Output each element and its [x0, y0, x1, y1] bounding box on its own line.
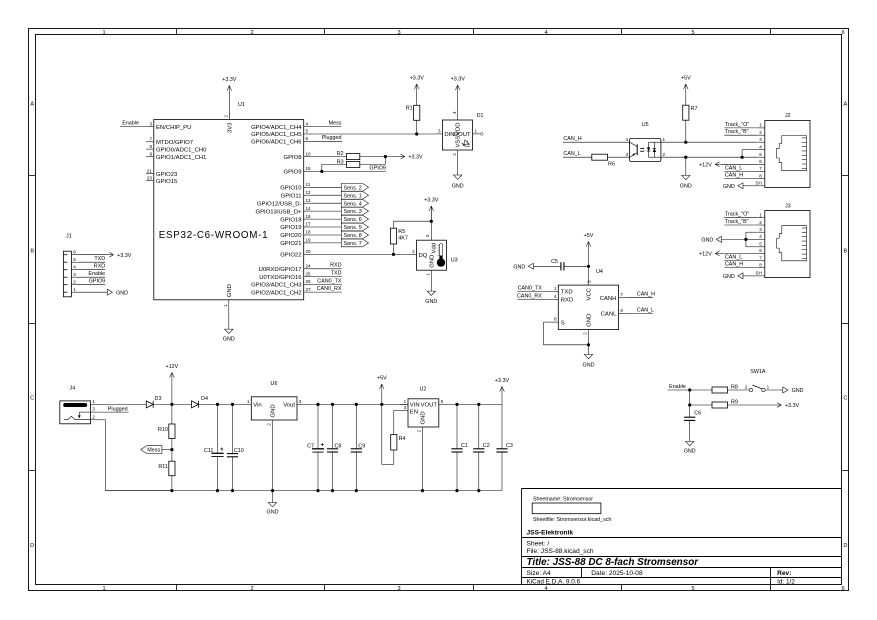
svg-text:Enable: Enable [669, 384, 686, 390]
svg-text:3: 3 [587, 280, 592, 283]
svg-text:D4: D4 [201, 396, 208, 402]
svg-text:CAN0_TX: CAN0_TX [518, 285, 543, 291]
svg-text:+3.3V: +3.3V [451, 77, 466, 83]
power +3.3V above R1 [410, 76, 425, 106]
svg-text:CAN_L: CAN_L [725, 254, 742, 260]
svg-text:GPIO2/ADC1_CH2: GPIO2/ADC1_CH2 [251, 290, 301, 296]
svg-text:A: A [30, 102, 34, 108]
wire R4 to +5V rail [382, 404, 394, 464]
svg-text:4: 4 [759, 145, 762, 150]
wire CAN0_RX net [312, 286, 342, 292]
svg-text:+3.3V: +3.3V [785, 403, 800, 409]
svg-text:11: 11 [306, 182, 311, 187]
svg-text:U3: U3 [451, 258, 458, 264]
svg-text:Size: A4: Size: A4 [527, 570, 552, 577]
svg-text:Track_"B": Track_"B" [725, 219, 749, 225]
junction C10 bottom [231, 489, 234, 492]
resistor R3 [337, 159, 360, 167]
svg-text:2: 2 [759, 130, 762, 135]
svg-text:GPIO11: GPIO11 [281, 193, 302, 199]
svg-text:GND: GND [452, 184, 464, 190]
ground at J2 SH [723, 183, 757, 190]
power +12V above divider [166, 364, 179, 404]
junction U6 GND rail [271, 489, 274, 492]
connector J3 [755, 203, 810, 277]
svg-text:8: 8 [759, 173, 762, 178]
svg-text:1: 1 [247, 399, 250, 404]
svg-text:2: 2 [759, 220, 762, 225]
svg-text:R11: R11 [158, 464, 168, 470]
svg-text:R10: R10 [158, 427, 168, 433]
svg-text:B: B [844, 249, 848, 255]
svg-text:3: 3 [404, 405, 407, 410]
wire J1 pin1 [79, 291, 107, 293]
svg-text:5: 5 [441, 399, 444, 404]
wire J3 pin7 CAN_L [724, 254, 757, 260]
svg-text:2: 2 [250, 586, 253, 592]
wire Plugged label [312, 135, 343, 141]
svg-text:19: 19 [306, 238, 312, 243]
svg-text:1: 1 [73, 287, 76, 292]
wire Plugged at J4 [98, 406, 129, 412]
svg-text:2: 2 [583, 332, 588, 335]
hierarchical label Sens. 4 [341, 199, 368, 207]
wire J1 pin6 [79, 254, 107, 256]
junction +12V node [170, 403, 173, 406]
hierarchical label Sens. 5 [341, 223, 368, 231]
svg-text:6: 6 [759, 159, 762, 164]
junction U2 GND rail [421, 489, 424, 492]
wire CAN_H to U5 [563, 136, 630, 142]
svg-text:DQ: DQ [419, 253, 428, 259]
svg-text:GPIO5/ADC1_CH5: GPIO5/ADC1_CH5 [251, 132, 302, 138]
svg-text:Plugged: Plugged [322, 135, 342, 141]
svg-text:U0RXD/GPIO17: U0RXD/GPIO17 [259, 267, 302, 273]
wire to Sens. 4 [312, 202, 342, 204]
svg-text:GPIO0/ADC1_CH0: GPIO0/ADC1_CH0 [156, 147, 207, 153]
svg-text:GND: GND [792, 388, 804, 394]
svg-text:1: 1 [759, 213, 762, 218]
svg-text:3: 3 [397, 586, 400, 592]
svg-text:GND: GND [227, 284, 233, 297]
bottom ground rail [105, 490, 502, 492]
wire J1 pin3 Enable [79, 271, 105, 277]
svg-text:1: 1 [474, 128, 477, 133]
capacitor C9 [351, 404, 366, 490]
junction +5V rail [380, 403, 383, 406]
svg-text:GPIO10: GPIO10 [280, 186, 302, 192]
svg-text:C10: C10 [234, 448, 244, 454]
svg-text:2: 2 [452, 153, 457, 156]
wire TXD net [312, 271, 342, 277]
junction C11 top [216, 403, 219, 406]
power +5V at rail [377, 376, 387, 405]
svg-text:2: 2 [92, 414, 95, 419]
junction J2 pin4/pin5 [741, 156, 744, 159]
svg-text:17: 17 [306, 222, 312, 227]
resistor R4 [391, 435, 406, 451]
junction U4 GND [587, 343, 590, 346]
wire U6 Vout rail [305, 403, 408, 405]
svg-text:3: 3 [92, 407, 95, 412]
wire VCC stem U4 [588, 266, 590, 285]
hierarchical label Sens. 2 [341, 183, 368, 191]
capacitor C11 [204, 404, 224, 490]
svg-text:+3.3V: +3.3V [222, 77, 237, 83]
svg-text:R2: R2 [337, 151, 344, 157]
svg-text:JSS-Elektronik: JSS-Elektronik [527, 530, 574, 537]
wire SW1A to GND [765, 389, 783, 391]
wire CAN_L to R6 [563, 151, 592, 157]
resistor R7 [683, 105, 698, 142]
svg-text:EN/CHIP_PU: EN/CHIP_PU [156, 125, 191, 131]
svg-text:CAN0_TX: CAN0_TX [317, 278, 342, 284]
svg-text:7: 7 [759, 255, 762, 260]
power +3.3V above U1 [222, 77, 237, 120]
resistor R11 [158, 450, 175, 491]
svg-text:GND: GND [223, 337, 235, 343]
svg-text:GPIO9: GPIO9 [89, 279, 105, 285]
svg-text:RXD: RXD [94, 264, 105, 270]
svg-text:+3.3V: +3.3V [117, 253, 132, 259]
svg-text:GND: GND [680, 183, 692, 189]
svg-text:CAN_H: CAN_H [725, 262, 743, 268]
svg-text:GPIO18: GPIO18 [280, 217, 302, 223]
svg-text:Mess: Mess [329, 121, 342, 127]
svg-text:15: 15 [306, 166, 312, 171]
svg-text:2: 2 [267, 423, 272, 426]
svg-text:1: 1 [426, 273, 431, 276]
junction C1 bottom [455, 489, 458, 492]
svg-text:4K7: 4K7 [398, 236, 408, 242]
svg-text:3: 3 [299, 399, 302, 404]
svg-text:R9: R9 [731, 399, 738, 405]
capacitor C6 [684, 405, 701, 441]
svg-text:20: 20 [306, 249, 312, 254]
ground at J3 SH [723, 273, 757, 280]
svg-text:Sheetname: Stromsensor: Sheetname: Stromsensor [533, 497, 593, 503]
svg-text:D3: D3 [155, 396, 162, 402]
resistor R10 [158, 404, 175, 449]
svg-text:S: S [561, 320, 565, 326]
hierarchical label Sens. 7 [341, 239, 368, 247]
hierarchical label Mess [141, 446, 172, 454]
svg-text:GPIO13/USB_D+: GPIO13/USB_D+ [255, 209, 302, 215]
wire to Sens. 7 [312, 242, 342, 244]
svg-text:C8: C8 [335, 443, 342, 449]
hierarchical sheet Stromsensor [532, 497, 611, 523]
svg-text:EN: EN [410, 410, 418, 416]
svg-text:C6: C6 [694, 411, 701, 417]
junction +3.3V/R5/U3 [430, 220, 433, 223]
wire J2 pin7 CAN_L [724, 165, 757, 171]
power +3.3V right of R2 [399, 154, 423, 161]
svg-text:12: 12 [306, 190, 312, 195]
svg-text:2: 2 [663, 152, 666, 157]
ground left of C5 [513, 263, 533, 270]
svg-text:VDD: VDD [456, 123, 462, 135]
title block [522, 489, 842, 586]
ground below U6 [267, 503, 279, 516]
svg-text:C2: C2 [483, 443, 490, 449]
wire RXD net [312, 263, 342, 269]
svg-text:CAN_H: CAN_H [563, 136, 581, 142]
svg-text:4: 4 [544, 586, 547, 592]
wire J4 pin1 to D3 [98, 403, 146, 405]
svg-text:2: 2 [224, 115, 229, 118]
svg-text:5: 5 [306, 129, 309, 134]
capacitor C8 [327, 404, 342, 490]
svg-text:GPIO22: GPIO22 [280, 253, 301, 259]
svg-text:2: 2 [745, 384, 748, 389]
svg-text:8: 8 [149, 144, 152, 149]
regulator U6 [244, 381, 305, 428]
wire R6 to U5 [608, 156, 630, 158]
svg-text:Title: JSS-88 DC 8-fach Stroms: Title: JSS-88 DC 8-fach Stromsensor [527, 557, 700, 568]
svg-text:Sens. 5: Sens. 5 [344, 225, 362, 231]
wire J2 pin1 Track_O [724, 122, 757, 128]
svg-text:C9: C9 [358, 443, 365, 449]
junction C11 bottom [216, 489, 219, 492]
svg-text:Plugged: Plugged [108, 406, 128, 412]
capacitor C7 [307, 404, 324, 490]
power +3.3V right of R9 [775, 403, 799, 410]
svg-text:+12V: +12V [699, 252, 712, 258]
svg-text:GND: GND [701, 238, 713, 244]
diode D4 [192, 396, 208, 408]
svg-text:Vout: Vout [283, 403, 295, 409]
wire J4 pin2 down [98, 420, 172, 491]
svg-text:TXD: TXD [94, 256, 105, 262]
capacitor C3 [496, 404, 513, 490]
switch SW1A [745, 369, 770, 391]
J4 pin stubs [91, 399, 98, 420]
svg-text:21: 21 [147, 168, 153, 173]
svg-text:3: 3 [397, 30, 400, 36]
svg-text:GPIO20: GPIO20 [280, 233, 302, 239]
svg-text:R4: R4 [399, 436, 406, 442]
svg-text:8: 8 [759, 262, 762, 267]
svg-text:CANH: CANH [600, 296, 617, 302]
wire J1 pin4 RXD [79, 264, 105, 270]
junction C8 bottom [331, 489, 334, 492]
hierarchical label Sens. 1 [341, 191, 368, 199]
junction GND stem U5 line [684, 156, 687, 159]
temperature sensor U3 [409, 234, 458, 278]
svg-text:TXD: TXD [561, 290, 573, 296]
svg-text:B: B [30, 249, 34, 255]
svg-text:24: 24 [306, 264, 312, 269]
ground below U3 [425, 278, 437, 305]
svg-text:3V3: 3V3 [227, 122, 233, 133]
svg-text:Sens. 1: Sens. 1 [344, 193, 362, 199]
svg-text:Sens. 6: Sens. 6 [344, 217, 362, 223]
power +5V above U4 [584, 233, 594, 266]
svg-text:R8: R8 [731, 384, 738, 390]
junction C1 top [455, 403, 458, 406]
svg-text:27: 27 [306, 287, 312, 292]
wire GPIO9 jog to R3 [322, 164, 347, 171]
hierarchical label Sens. 3 [341, 207, 368, 215]
wire CAN_L from U4 [626, 307, 654, 313]
LED D1 (WS2812) [435, 111, 484, 158]
ground below U1 [223, 308, 235, 343]
svg-text:GPIO9: GPIO9 [369, 165, 385, 171]
svg-text:SW1A: SW1A [750, 369, 766, 375]
svg-text:Id: 1/2: Id: 1/2 [777, 579, 795, 586]
svg-text:Sens. 4: Sens. 4 [344, 201, 362, 207]
wire CAN0_RX to U4 [517, 293, 551, 299]
svg-text:C1: C1 [461, 443, 468, 449]
wire R8 to SW1A [728, 389, 750, 391]
svg-text:1: 1 [663, 137, 666, 142]
svg-text:D1: D1 [477, 113, 484, 119]
wire EN to R4 [394, 411, 401, 435]
wire J2 pin8 CAN_H [724, 172, 757, 178]
wire U6 GND stem [272, 428, 274, 503]
svg-text:+5V: +5V [377, 376, 387, 382]
junction R1/D1 line [415, 132, 418, 135]
wire CAN_H from U4 [626, 292, 655, 298]
power +3.3V above D1 [451, 77, 466, 113]
svg-text:GPIO23: GPIO23 [156, 172, 178, 178]
svg-text:J1: J1 [66, 234, 72, 240]
svg-text:+3.3V: +3.3V [408, 155, 423, 161]
junction R11 bottom rail [170, 489, 173, 492]
svg-text:2: 2 [412, 249, 415, 254]
wire CAN0_TX net [312, 278, 342, 284]
junction J3 GND bracket [744, 238, 747, 241]
capacitor C1 [451, 404, 468, 490]
connector J4 (barrel jack) [60, 386, 91, 424]
svg-text:CAN_H: CAN_H [637, 292, 655, 298]
junction C8 top [331, 403, 334, 406]
svg-text:GPIO8: GPIO8 [283, 155, 302, 161]
wire U2 GND stem [422, 435, 424, 491]
svg-text:TXD: TXD [331, 271, 342, 277]
svg-text:Sens. 2: Sens. 2 [344, 185, 362, 191]
svg-text:VCC: VCC [587, 287, 593, 300]
svg-text:5: 5 [759, 152, 762, 157]
junction GPIO9 jog [320, 170, 323, 173]
svg-text:7: 7 [759, 166, 762, 171]
svg-text:5: 5 [73, 257, 76, 262]
junction R7 bottom [684, 141, 687, 144]
wire J3 pins 3-4-5 bracket [746, 232, 757, 247]
wire GPIO5 to D1 [312, 133, 435, 135]
svg-text:GND: GND [271, 404, 277, 417]
wire to Sens. 1 [312, 194, 342, 196]
svg-text:C5: C5 [551, 259, 558, 265]
power +3.3V above U3 [424, 198, 439, 222]
wire to Sens. 2 [312, 186, 342, 188]
svg-text:+3.3V: +3.3V [424, 198, 439, 204]
svg-text:GND: GND [513, 264, 525, 270]
svg-text:CANL: CANL [601, 312, 617, 318]
junction C7 bottom [316, 489, 319, 492]
wire GPIO8 to R2 [312, 156, 347, 158]
wire CAN0_TX to U4 [517, 285, 550, 291]
svg-text:GPIO4/ADC1_CH4: GPIO4/ADC1_CH4 [251, 125, 302, 131]
wire D4 to U6 [198, 403, 243, 405]
ground below D1 [452, 158, 464, 190]
svg-text:GND: GND [583, 363, 595, 369]
wire to Sens. 3 [312, 210, 342, 212]
svg-text:3: 3 [149, 121, 152, 126]
wire J2 pin2 Track_B [724, 129, 757, 135]
wire R3 right tie [360, 157, 386, 165]
wire J3 pin1 Track_O [724, 212, 757, 218]
hierarchical label Sens. 8 [341, 231, 368, 239]
ground below U5 line [680, 157, 692, 189]
svg-text:3: 3 [759, 227, 762, 232]
svg-text:7: 7 [149, 137, 152, 142]
resistor R6 [592, 154, 615, 167]
svg-text:6: 6 [841, 30, 844, 36]
junction C5/VCC [587, 265, 590, 268]
wire R5 top to U3 VDD [394, 206, 432, 240]
junction R2/R3 tie [384, 155, 387, 158]
svg-text:GND: GND [587, 314, 593, 327]
svg-text:KiCad E.D.A. 9.0.6: KiCad E.D.A. 9.0.6 [527, 579, 581, 586]
wire U4 S loop [543, 322, 588, 345]
resistor R8 [712, 384, 738, 393]
resistor R9 [712, 399, 738, 408]
svg-text:6: 6 [73, 249, 76, 254]
svg-text:1: 1 [767, 384, 770, 389]
svg-text:C7: C7 [307, 443, 314, 449]
ground below C6 [684, 441, 696, 454]
capacitor C5 [534, 259, 589, 270]
svg-text:16: 16 [306, 214, 312, 219]
svg-text:6: 6 [841, 586, 844, 592]
hierarchical label Sens. 6 [341, 215, 368, 223]
svg-text:3: 3 [438, 128, 441, 133]
wire Enable to R8 [667, 384, 712, 390]
svg-text:26: 26 [306, 279, 312, 284]
svg-text:GPIO21: GPIO21 [280, 241, 301, 247]
svg-text:Track_"B": Track_"B" [725, 129, 749, 135]
wire U5 pin1 to J2 pin3 [661, 141, 757, 143]
svg-text:J4: J4 [70, 386, 76, 392]
svg-text:13: 13 [306, 198, 312, 203]
svg-text:Rev:: Rev: [777, 570, 791, 577]
wire to Sens. 8 [312, 234, 342, 236]
svg-text:5: 5 [691, 586, 694, 592]
svg-text:R5: R5 [398, 229, 405, 235]
svg-text:4: 4 [759, 234, 762, 239]
wire J1 pin2 GPIO9 [79, 279, 105, 285]
resistor R1 [406, 105, 420, 134]
svg-text:GND: GND [429, 255, 435, 268]
svg-text:Sens. 7: Sens. 7 [344, 241, 362, 247]
svg-text:VOUT: VOUT [421, 403, 438, 409]
svg-text:CAN_L: CAN_L [725, 165, 742, 171]
svg-text:9: 9 [149, 151, 152, 156]
wire R2 to +3.3V [360, 156, 399, 158]
power +12V at J2 pin6 [699, 162, 757, 169]
optocoupler U5 [625, 122, 665, 162]
svg-text:C: C [30, 396, 34, 402]
svg-text:U1: U1 [238, 102, 245, 108]
svg-text:J2: J2 [785, 113, 791, 119]
wire J1 pin5 TXD [79, 256, 105, 262]
svg-text:R6: R6 [608, 162, 615, 168]
svg-text:RXD: RXD [330, 263, 341, 269]
power +5V above R7 [681, 76, 691, 106]
svg-text:23: 23 [147, 175, 153, 180]
svg-text:R7: R7 [691, 106, 698, 112]
